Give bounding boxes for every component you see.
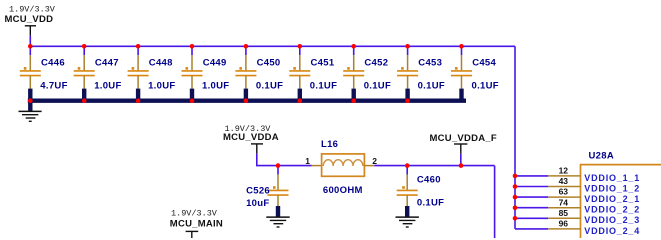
pin 12 VDDIO_1_1 xyxy=(515,166,640,183)
svg-text:0.1UF: 0.1UF xyxy=(256,80,283,91)
wire right vertical to U28A xyxy=(514,46,516,229)
svg-text:1.0UF: 1.0UF xyxy=(202,80,229,91)
pin 74 VDDIO_2_2 xyxy=(515,197,640,214)
svg-text:VDDIO_1_1: VDDIO_1_1 xyxy=(584,173,640,183)
svg-text:4.7UF: 4.7UF xyxy=(40,80,67,91)
svg-text:63: 63 xyxy=(559,187,569,197)
svg-text:VDDIO_1_2: VDDIO_1_2 xyxy=(584,183,640,193)
capacitor C450 xyxy=(235,46,283,100)
wire MCU_VDDA xyxy=(257,154,312,166)
net label MCU_VDDA_F xyxy=(430,133,497,154)
svg-text:96: 96 xyxy=(559,219,569,229)
power symbol MCU_MAIN xyxy=(170,208,223,238)
svg-text:1.0UF: 1.0UF xyxy=(94,80,121,91)
svg-text:C451: C451 xyxy=(311,58,335,69)
bus MCU_VDD decoupling xyxy=(28,98,466,102)
svg-text:C448: C448 xyxy=(149,58,173,69)
pin 85 VDDIO_2_3 xyxy=(515,208,640,225)
pin 43 VDDIO_1_2 xyxy=(515,176,640,193)
svg-text:0.1UF: 0.1UF xyxy=(364,80,391,91)
svg-text:C460: C460 xyxy=(417,174,441,185)
svg-text:12: 12 xyxy=(559,166,569,176)
pin 63 VDDIO_2_1 xyxy=(515,187,640,204)
capacitor C451 xyxy=(289,46,337,100)
svg-text:MCU_VDDA_F: MCU_VDDA_F xyxy=(430,133,497,144)
svg-text:L16: L16 xyxy=(321,139,338,150)
svg-text:600OHM: 600OHM xyxy=(323,185,363,196)
wire L16 pin2 to corner xyxy=(374,165,494,167)
svg-text:VDDIO_2_3: VDDIO_2_3 xyxy=(584,215,640,225)
pin 96 VDDIO_2_4 xyxy=(515,219,640,236)
svg-text:MCU_VDDA: MCU_VDDA xyxy=(223,132,279,143)
svg-text:10uF: 10uF xyxy=(246,198,269,209)
capacitor C452 xyxy=(343,46,391,100)
wire corner down MCU_VDDA_F xyxy=(494,166,496,238)
svg-text:C449: C449 xyxy=(203,58,227,69)
junction dots middle wire xyxy=(276,163,464,168)
capacitor C449 xyxy=(182,46,230,100)
wire MCU_VDD vertical xyxy=(29,36,31,47)
ground C460 xyxy=(396,217,419,227)
junction dots U28A column xyxy=(513,174,518,221)
svg-text:C452: C452 xyxy=(364,58,388,69)
svg-text:C526: C526 xyxy=(246,185,270,196)
svg-text:0.1UF: 0.1UF xyxy=(472,80,499,91)
svg-text:1.0UF: 1.0UF xyxy=(148,80,175,91)
capacitor C448 xyxy=(128,46,176,100)
svg-text:MCU_VDD: MCU_VDD xyxy=(5,14,54,25)
svg-text:0.1UF: 0.1UF xyxy=(418,80,445,91)
svg-text:1.9V/3.3V: 1.9V/3.3V xyxy=(171,208,218,218)
svg-text:74: 74 xyxy=(559,197,569,207)
op-amp U28A box outline xyxy=(581,165,661,238)
svg-text:MCU_MAIN: MCU_MAIN xyxy=(170,219,223,230)
wire MCU_VDD horizontal xyxy=(30,45,515,47)
svg-text:85: 85 xyxy=(559,208,569,218)
capacitor C453 xyxy=(397,46,445,100)
svg-text:C446: C446 xyxy=(41,58,65,69)
svg-text:VDDIO_2_4: VDDIO_2_4 xyxy=(584,226,640,236)
capacitor C460 xyxy=(397,166,445,217)
svg-text:C453: C453 xyxy=(418,58,442,69)
capacitor C454 xyxy=(451,46,499,100)
capacitor C446 xyxy=(20,46,68,100)
svg-text:43: 43 xyxy=(559,176,569,186)
svg-text:C447: C447 xyxy=(95,58,119,69)
ground C526 xyxy=(266,217,289,227)
svg-text:0.1UF: 0.1UF xyxy=(417,198,444,209)
svg-text:VDDIO_2_1: VDDIO_2_1 xyxy=(584,194,640,204)
wire MCU_VDDA_F stem xyxy=(460,154,462,166)
svg-text:2: 2 xyxy=(372,156,377,166)
junction dots bus xyxy=(28,98,410,103)
svg-text:1: 1 xyxy=(305,156,310,166)
junction dots top wire xyxy=(28,44,464,49)
svg-text:C454: C454 xyxy=(472,58,496,69)
capacitor C447 xyxy=(74,46,122,100)
capacitor C526 xyxy=(246,166,288,217)
svg-text:VDDIO_2_2: VDDIO_2_2 xyxy=(584,205,640,215)
inductor L16 xyxy=(305,139,377,196)
svg-text:U28A: U28A xyxy=(589,151,615,162)
power symbol MCU_VDDA xyxy=(223,124,279,154)
ground xyxy=(19,101,42,122)
power symbol MCU_VDD xyxy=(5,5,56,36)
svg-text:0.1UF: 0.1UF xyxy=(310,80,337,91)
svg-text:C450: C450 xyxy=(257,58,281,69)
